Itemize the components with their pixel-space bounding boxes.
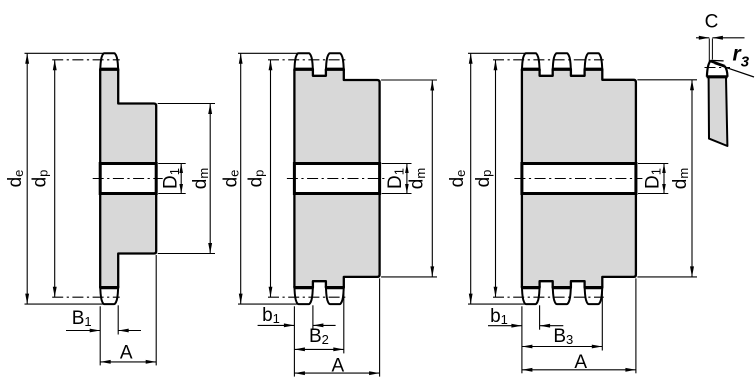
- dimension A sprocket 1 (simplex): [100, 361, 156, 363]
- dimension D1 sprocket 1 (simplex) extension lines: [158, 163, 186, 165]
- dimension dp sprocket 3 (triplex): [495, 60, 497, 297]
- sprocket 3 (triplex) tooth bottom 3: [585, 287, 603, 304]
- svg-text:C: C: [705, 12, 719, 33]
- sprocket 3 (triplex) tooth bottom 2: [553, 287, 571, 304]
- svg-text:de: de: [447, 170, 468, 188]
- r3 leader line: [715, 64, 755, 77]
- dimension D1 sprocket 2 (duplex): [406, 164, 408, 194]
- svg-text:B1: B1: [72, 308, 92, 329]
- dimension dm sprocket 2 (duplex): [431, 80, 433, 277]
- sprocket 2 (duplex) root line bottom 1: [294, 286, 314, 289]
- svg-text:de: de: [220, 170, 241, 188]
- dimension B1 sprocket 1 (simplex): [66, 330, 100, 332]
- dimension dm sprocket 1 (simplex) extension lines: [158, 103, 215, 105]
- detail tooth column (side view): [709, 77, 728, 146]
- svg-text:dm: dm: [407, 168, 428, 189]
- dimension A sprocket 1 (simplex) extension line right: [155, 255, 157, 365]
- sprocket 3 (triplex) root line top 3: [584, 68, 603, 71]
- sprocket 1 (simplex) pitch line bottom: [52, 296, 120, 298]
- detail root line: [707, 75, 728, 78]
- detail cap right side: [725, 66, 728, 77]
- sprocket 3 (triplex) tooth top 3: [585, 53, 603, 70]
- svg-text:B3: B3: [553, 326, 573, 347]
- svg-text:dp: dp: [29, 170, 50, 188]
- sprocket 3 (triplex) tooth top 2: [553, 53, 571, 70]
- svg-text:dm: dm: [190, 168, 211, 189]
- dimension B1 sprocket 1 (simplex) extension lines: [99, 306, 101, 365]
- dimension dm sprocket 2 (duplex) extension lines: [381, 79, 437, 81]
- svg-text:dm: dm: [670, 168, 691, 189]
- svg-text:b1: b1: [490, 306, 508, 327]
- dimension B2 sprocket 2 (duplex) extension line: [343, 278, 345, 353]
- dimension de sprocket 1 (simplex): [26, 53, 28, 304]
- svg-text:D1: D1: [642, 168, 663, 189]
- sprocket 2 (duplex) tooth top 1: [294, 53, 313, 70]
- sprocket 2 (duplex) root line top 1: [294, 68, 314, 71]
- dimension C: [696, 37, 709, 39]
- sprocket 3 (triplex) de extension top: [468, 52, 525, 54]
- dimension dm sprocket 3 (triplex): [691, 80, 693, 277]
- sprocket 1 (simplex) de extension bottom: [25, 303, 104, 305]
- dimension de sprocket 3 (triplex): [470, 53, 472, 304]
- dimension A sprocket 3 (triplex): [522, 369, 636, 371]
- sprocket 3 (triplex) centerline: [514, 178, 642, 180]
- sprocket 3 (triplex) bore: [522, 164, 636, 194]
- dimension A sprocket 2 (duplex): [294, 372, 379, 374]
- dimension dp sprocket 1 (simplex): [54, 60, 56, 297]
- sprocket 1 (simplex) pitch line top: [52, 59, 120, 61]
- sprocket 3 (triplex) root line bottom 3: [584, 286, 603, 289]
- sprocket 2 (duplex) centerline: [287, 178, 386, 180]
- svg-text:A: A: [574, 352, 587, 373]
- dimension B3 sprocket 3 (triplex) extension line: [601, 278, 603, 350]
- sprocket 1 (simplex) bore: [100, 164, 156, 194]
- sprocket 3 (triplex) tooth bottom 1: [522, 287, 540, 304]
- sprocket 3 (triplex) root line bottom 1: [521, 286, 540, 289]
- dimension dm sprocket 3 (triplex) extension lines: [637, 79, 697, 81]
- dimension A sprocket 3 (triplex) extension line right: [635, 278, 637, 373]
- sprocket 2 (duplex) root line top 2: [325, 68, 344, 71]
- sprocket 1 (simplex) root line bottom 1: [100, 286, 119, 289]
- sprocket 2 (duplex) tooth bottom 2: [326, 287, 344, 304]
- sprocket 2 (duplex) pitch line bottom: [268, 296, 345, 298]
- dimension dp sprocket 2 (duplex): [270, 60, 272, 297]
- svg-text:dp: dp: [245, 170, 266, 188]
- svg-text:r3: r3: [733, 42, 750, 70]
- dimension C extension lines: [708, 39, 710, 63]
- detail cap top edge: [711, 59, 724, 62]
- sprocket 2 (duplex) de extension bottom: [238, 303, 298, 305]
- sprocket 3 (triplex) tooth top 1: [522, 53, 540, 70]
- svg-text:de: de: [5, 170, 26, 188]
- sprocket 1 (simplex) centerline: [93, 178, 163, 180]
- detail cap left side: [707, 61, 711, 77]
- dimension b1 sprocket 2 (duplex): [258, 324, 295, 326]
- sprocket 3 (triplex) pitch line top: [493, 59, 604, 61]
- dimension A sprocket 2 (duplex) extension line right: [379, 278, 381, 376]
- sprocket 2 (duplex) pitch line top: [268, 59, 345, 61]
- sprocket 3 (triplex) pitch line bottom: [493, 296, 604, 298]
- svg-text:B2: B2: [309, 326, 329, 347]
- sprocket 3 (triplex) root line bottom 2: [552, 286, 571, 289]
- sprocket 1 (simplex) tooth top 1: [100, 53, 118, 70]
- dimension dm sprocket 1 (simplex): [209, 104, 211, 254]
- svg-text:A: A: [120, 343, 133, 364]
- sprocket 3 (triplex) body: [522, 69, 636, 287]
- sprocket 2 (duplex) body: [294, 69, 379, 287]
- sprocket 2 (duplex) root line bottom 2: [325, 286, 344, 289]
- sprocket 3 (triplex) root line top 1: [521, 68, 540, 71]
- dimension b1 sprocket 3 (triplex) extension lines: [521, 306, 523, 373]
- detail centerline: [705, 67, 731, 69]
- detail chamfer line: [711, 61, 725, 66]
- svg-text:D1: D1: [385, 168, 406, 189]
- dimension D1 sprocket 3 (triplex): [663, 164, 665, 194]
- dimension b1 sprocket 3 (triplex): [488, 325, 522, 327]
- sprocket 3 (triplex) root line top 2: [552, 68, 571, 71]
- detail tooth cap: [707, 61, 728, 77]
- sprocket 2 (duplex) tooth bottom 1: [294, 287, 313, 304]
- svg-text:A: A: [331, 355, 344, 376]
- dimension B2 sprocket 2 (duplex): [294, 348, 343, 350]
- sprocket 3 (triplex) de extension bottom: [468, 303, 525, 305]
- dimension B3 sprocket 3 (triplex): [522, 346, 602, 348]
- dimension D1 sprocket 2 (duplex) extension lines: [382, 163, 412, 165]
- sprocket 1 (simplex) tooth bottom 1: [100, 287, 118, 304]
- dimension b1 sprocket 2 (duplex) extension lines: [293, 306, 295, 376]
- dimension D1 sprocket 3 (triplex) extension lines: [638, 163, 668, 165]
- sprocket 2 (duplex) tooth top 2: [326, 53, 344, 70]
- sprocket 1 (simplex) root line top 1: [100, 68, 119, 71]
- dimension de sprocket 2 (duplex): [240, 53, 242, 304]
- sprocket 1 (simplex) body: [100, 69, 156, 287]
- svg-text:dp: dp: [473, 170, 494, 188]
- svg-text:D1: D1: [161, 168, 182, 189]
- sprocket 1 (simplex) de extension top: [25, 52, 104, 54]
- sprocket 2 (duplex) bore: [294, 164, 379, 194]
- sprocket 2 (duplex) de extension top: [238, 52, 298, 54]
- svg-text:b1: b1: [262, 305, 280, 326]
- dimension D1 sprocket 1 (simplex): [180, 164, 182, 194]
